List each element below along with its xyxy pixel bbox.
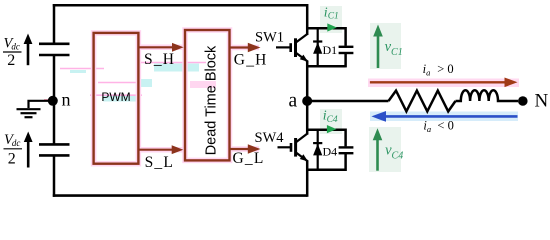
dead-time block U2 [185,30,230,160]
PWM box U1 [94,33,139,164]
node N dot [518,96,528,106]
signal G_H arrow [230,43,261,52]
artifact pink line B [98,82,146,84]
G_H arrow glow [230,45,260,51]
Vdc/2 top arrow [24,34,33,66]
ground symbol [17,109,41,117]
wire D1 branch top [306,27,346,30]
signal G_L arrow [230,144,261,153]
artifact pink line A [60,69,104,74]
svg-text:2: 2 [7,52,15,69]
svg-text:2: 2 [8,151,16,168]
Vdc/2 bottom arrow [24,132,33,168]
wire SW1 collector [306,4,309,35]
artifact cyan band under S_H [140,63,206,72]
wire left rail upper [53,4,56,44]
highlight glow vC1 [370,23,401,69]
capacitor C1 [339,27,354,67]
svg-text:S_L: S_L [145,154,174,171]
wire D4 branch top [306,129,346,132]
signal S_L arrow [140,145,184,154]
artifact red tick at node n [44,100,48,102]
wire left rail mid2 [53,101,56,144]
S_H arrow glow [140,45,184,51]
current iC4 arrow [327,125,337,133]
svg-text:SW1: SW1 [255,30,284,46]
dead-time box glow [185,30,230,160]
svg-text:G_L: G_L [233,150,265,167]
svg-text:G_H: G_H [234,52,268,69]
ground wire [29,101,49,108]
capacitor Cdc2 [39,144,70,155]
wire bottom bus [53,194,307,197]
highlight glow vC4 [369,127,401,172]
svg-text:D4: D4 [323,144,338,158]
svg-text:N: N [535,91,549,112]
voltage vC4 arrow [373,128,383,171]
signal S_H arrow [140,43,184,52]
wire SW4 emitter to bottom bus [306,161,309,197]
wire D4 branch bottom [306,169,346,172]
highlight glow iC1 [320,6,342,33]
diode D4 [313,129,322,171]
capacitor C4 [339,129,354,172]
wire SW4 collector from node a [306,101,309,135]
S_L arrow glow [140,147,184,153]
voltage vC1 arrow [373,25,383,69]
svg-text:SW4: SW4 [255,130,285,146]
highlight glow ia>0 arrow [368,79,519,88]
dead-time box fill [186,31,228,159]
svg-text:S_H: S_H [144,51,175,68]
current ia>0 arrow [370,78,518,88]
PWM box glow [94,33,139,164]
highlight glow ia<0 arrow [370,112,518,122]
artifact cyan patch E [137,79,216,88]
node a dot [302,96,312,106]
artifact pink line C [90,95,142,101]
node n dot [48,96,58,106]
wire node a to load [307,100,388,103]
current ia<0 arrow [371,111,517,122]
wire left rail mid1 [53,55,56,101]
PWM box fill [95,34,137,162]
Vdc/2 bottom label [4,132,23,168]
Vdc/2 top label [3,36,22,70]
wire D1 branch bottom [306,65,346,68]
wire SW1 emitter to node a [306,61,309,101]
wire left rail lower [53,155,56,196]
svg-text:a: a [289,91,298,112]
current iC1 arrow [327,23,337,31]
svg-text:PWM: PWM [101,90,130,104]
diode D1 [313,27,322,67]
svg-text:D1: D1 [323,43,338,57]
IGBT SW1 [276,34,308,62]
resistor Rload [389,91,456,112]
IGBT SW4 [278,134,309,162]
capacitor Cdc1 [39,44,70,55]
G_L arrow glow [230,146,260,152]
svg-text:Dead Time Block: Dead Time Block [203,45,219,155]
inductor Lload [456,90,519,101]
wire top bus [53,4,307,7]
highlight glow iC4 [320,109,342,134]
svg-text:n: n [62,90,71,110]
